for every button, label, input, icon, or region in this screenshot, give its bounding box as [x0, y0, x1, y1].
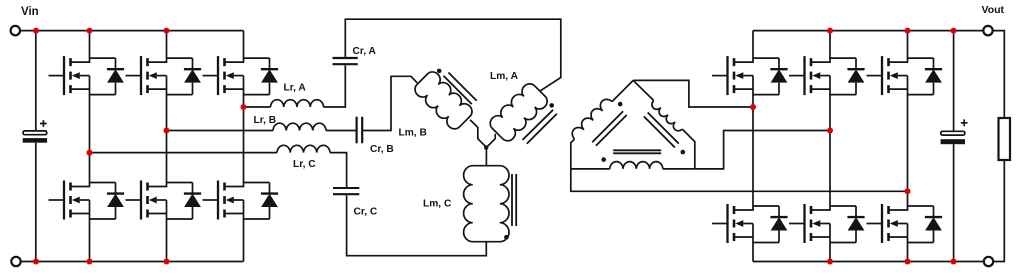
wire: Lr,B to Cr,B	[326, 130, 356, 132]
wire: delta bottom-right to right leg B	[695, 131, 830, 169]
wire: Lm,B to star point	[470, 120, 486, 147]
junction dot: bottom rail / cap	[33, 259, 39, 265]
transistor Q5 (left bridge low-side leg B)	[126, 181, 202, 220]
plus sign of Cout	[961, 119, 968, 126]
wire: right leg B drain	[829, 31, 831, 58]
svg-text:Vin: Vin	[21, 6, 39, 18]
polarity dot delta right	[681, 150, 686, 155]
transistor Q2 (left bridge high-side leg B)	[126, 56, 202, 95]
wire: bottom input rail	[21, 261, 243, 263]
junction dot: top rail leg A	[87, 28, 93, 34]
wire: Lr,A to Cr,A	[324, 65, 346, 107]
secondary delta right upper segment	[633, 80, 654, 100]
Vout terminal (top-right)	[983, 26, 992, 35]
core lines delta left	[592, 111, 627, 146]
svg-text:Vout: Vout	[982, 4, 1005, 16]
junction dot: bottom rail leg A	[87, 259, 93, 265]
polarity dot Lm,B	[437, 69, 442, 74]
transistor Q12 (right bridge low-side leg C)	[867, 204, 943, 243]
secondary delta right lower segment	[682, 129, 695, 169]
capacitor Cin bottom plate (thick)	[23, 138, 47, 143]
wire: right leg B midpoint	[829, 95, 831, 206]
wire: Vout to load top	[993, 31, 1005, 118]
wire: load bottom to Vout-	[993, 160, 1004, 262]
capacitor Cin top plate	[23, 131, 47, 135]
polarity dot delta bottom	[601, 157, 606, 162]
transistor Q6 (left bridge low-side leg C)	[203, 181, 279, 220]
wire: output cap branch lower	[953, 144, 955, 261]
svg-text:Lm, C: Lm, C	[423, 199, 452, 210]
junction dot: right bottom rail leg C	[905, 259, 911, 265]
junction dot: phase C tap	[87, 150, 93, 156]
wire: left leg B drain	[166, 31, 168, 58]
capacitor Cout top plate	[941, 131, 965, 135]
junction dot: right top rail leg B	[827, 28, 833, 34]
wire: delta apex to right leg A	[633, 80, 753, 107]
polarity dot delta left	[618, 102, 623, 107]
secondary delta winding right	[650, 101, 682, 133]
wire: Lr,C to Cr,C	[330, 153, 347, 187]
transistor Q3 (left bridge high-side leg C)	[203, 56, 279, 95]
wire: left leg A drain	[89, 31, 91, 58]
svg-text:Cr, C: Cr, C	[354, 207, 378, 218]
core lines delta right	[644, 113, 679, 148]
wire: left leg B midpoint	[166, 95, 168, 183]
junction dot: right leg B tap	[827, 128, 833, 134]
inductor Lr,A	[271, 100, 324, 107]
wire: star point to Lm,C	[485, 147, 487, 165]
wire: Cr,B to Lm,B	[363, 76, 417, 130]
wire: left leg C drain	[243, 31, 245, 58]
transistor Q8 (right bridge high-side leg B)	[789, 56, 865, 95]
polarity dot Lm,C	[504, 235, 509, 240]
wire: input cap branch lower	[35, 143, 37, 262]
wire: output cap branch upper	[953, 31, 955, 132]
plus sign of Cin	[40, 120, 47, 127]
wire: left leg C midpoint	[243, 95, 245, 183]
junction dot: phase B tap	[164, 128, 170, 134]
wire: left leg A midpoint	[89, 95, 91, 183]
winding Lm,C	[464, 166, 509, 242]
svg-text:Cr, A: Cr, A	[353, 46, 377, 57]
wire: right leg A midpoint	[752, 95, 754, 206]
transistor Q7 (right bridge high-side leg A)	[712, 56, 788, 95]
secondary delta left side upper segment	[612, 80, 633, 101]
junction dot: right bottom rail cap	[951, 259, 957, 265]
junction dot: top rail leg B	[164, 28, 170, 34]
wire: phase A to Lr,A	[244, 106, 271, 108]
core lines Lm,B	[444, 73, 477, 105]
junction dot: right bottom rail leg B	[827, 259, 833, 265]
inductor Lr,C	[277, 145, 330, 152]
core lines Lm,A	[523, 110, 557, 144]
svg-text:Cr, B: Cr, B	[370, 144, 394, 155]
junction dot: Vin rail / cap	[33, 28, 39, 34]
wire: right leg C drain	[907, 31, 909, 58]
winding Lm,A	[487, 81, 550, 144]
secondary delta left lower segment	[571, 139, 575, 169]
wire: Cr,A to top link	[345, 19, 561, 91]
wire: right leg B source	[829, 243, 831, 262]
transistor Q9 (right bridge high-side leg C)	[867, 56, 943, 95]
Vout- terminal (bottom-right)	[984, 257, 993, 266]
wire: left leg C source to rail	[243, 219, 245, 262]
secondary delta winding left	[569, 96, 612, 139]
junction dot: right leg A tap	[750, 104, 756, 110]
winding Lm,B	[412, 69, 475, 132]
Vin terminal (top-left)	[11, 26, 20, 35]
svg-text:Lr, A: Lr, A	[284, 83, 307, 94]
transistor Q4 (left bridge low-side leg A)	[49, 181, 125, 220]
svg-text:Lm, B: Lm, B	[399, 128, 427, 139]
capacitor Cr,C plates	[333, 188, 359, 194]
wire: Cr,C to Lm,C bottom	[347, 195, 487, 256]
wire: delta bottom-left to right leg C	[571, 169, 908, 191]
wire: right leg C source	[907, 243, 909, 262]
transistor Q10 (right bridge low-side leg A)	[712, 204, 788, 243]
wire: left leg A source to rail	[89, 219, 91, 262]
wire: right leg A source	[752, 243, 754, 262]
star point node	[484, 145, 488, 149]
load resistor	[999, 118, 1011, 160]
secondary delta bottom right segment	[663, 168, 695, 170]
junction dot: bottom rail leg B	[164, 259, 170, 265]
junction dot: right top rail cap	[951, 28, 957, 34]
wire: right leg A drain	[752, 31, 754, 58]
junction dot: right leg C tap	[905, 188, 911, 194]
core lines Lm,C	[512, 174, 516, 226]
junction dot: right top rail leg C	[905, 28, 911, 34]
svg-text:Lm, A: Lm, A	[490, 71, 519, 82]
wire: phase C to Lr,C	[90, 152, 278, 154]
wire: left leg B source to rail	[166, 219, 168, 262]
secondary delta winding bottom	[610, 162, 663, 169]
transistor Q11 (right bridge low-side leg B)	[789, 204, 865, 243]
svg-text:Lr, C: Lr, C	[293, 159, 316, 170]
core lines delta bottom	[613, 150, 661, 153]
wire: top input rail	[20, 30, 243, 32]
wire: right top rail	[753, 30, 983, 32]
transistor Q1 (left bridge high-side leg A)	[49, 56, 125, 95]
wire: input cap branch upper	[35, 31, 37, 131]
capacitor Cr,B plates	[357, 117, 363, 143]
svg-text:Lr, B: Lr, B	[254, 115, 277, 126]
wire: right leg C midpoint	[907, 95, 909, 206]
capacitor Cr,A plates	[333, 58, 358, 64]
wire: right bottom rail	[753, 261, 984, 263]
inductor Lr,B	[273, 123, 326, 130]
secondary delta bottom left segment	[571, 168, 610, 170]
wire: Lm,A to star point	[487, 134, 496, 148]
Vin- terminal (bottom-left)	[11, 257, 20, 266]
capacitor Cout bottom plate (thick)	[941, 139, 965, 144]
wire: phase B to Lr,B	[167, 130, 274, 132]
junction dot: phase A tap	[241, 104, 247, 110]
polarity dot Lm,A	[549, 103, 554, 108]
